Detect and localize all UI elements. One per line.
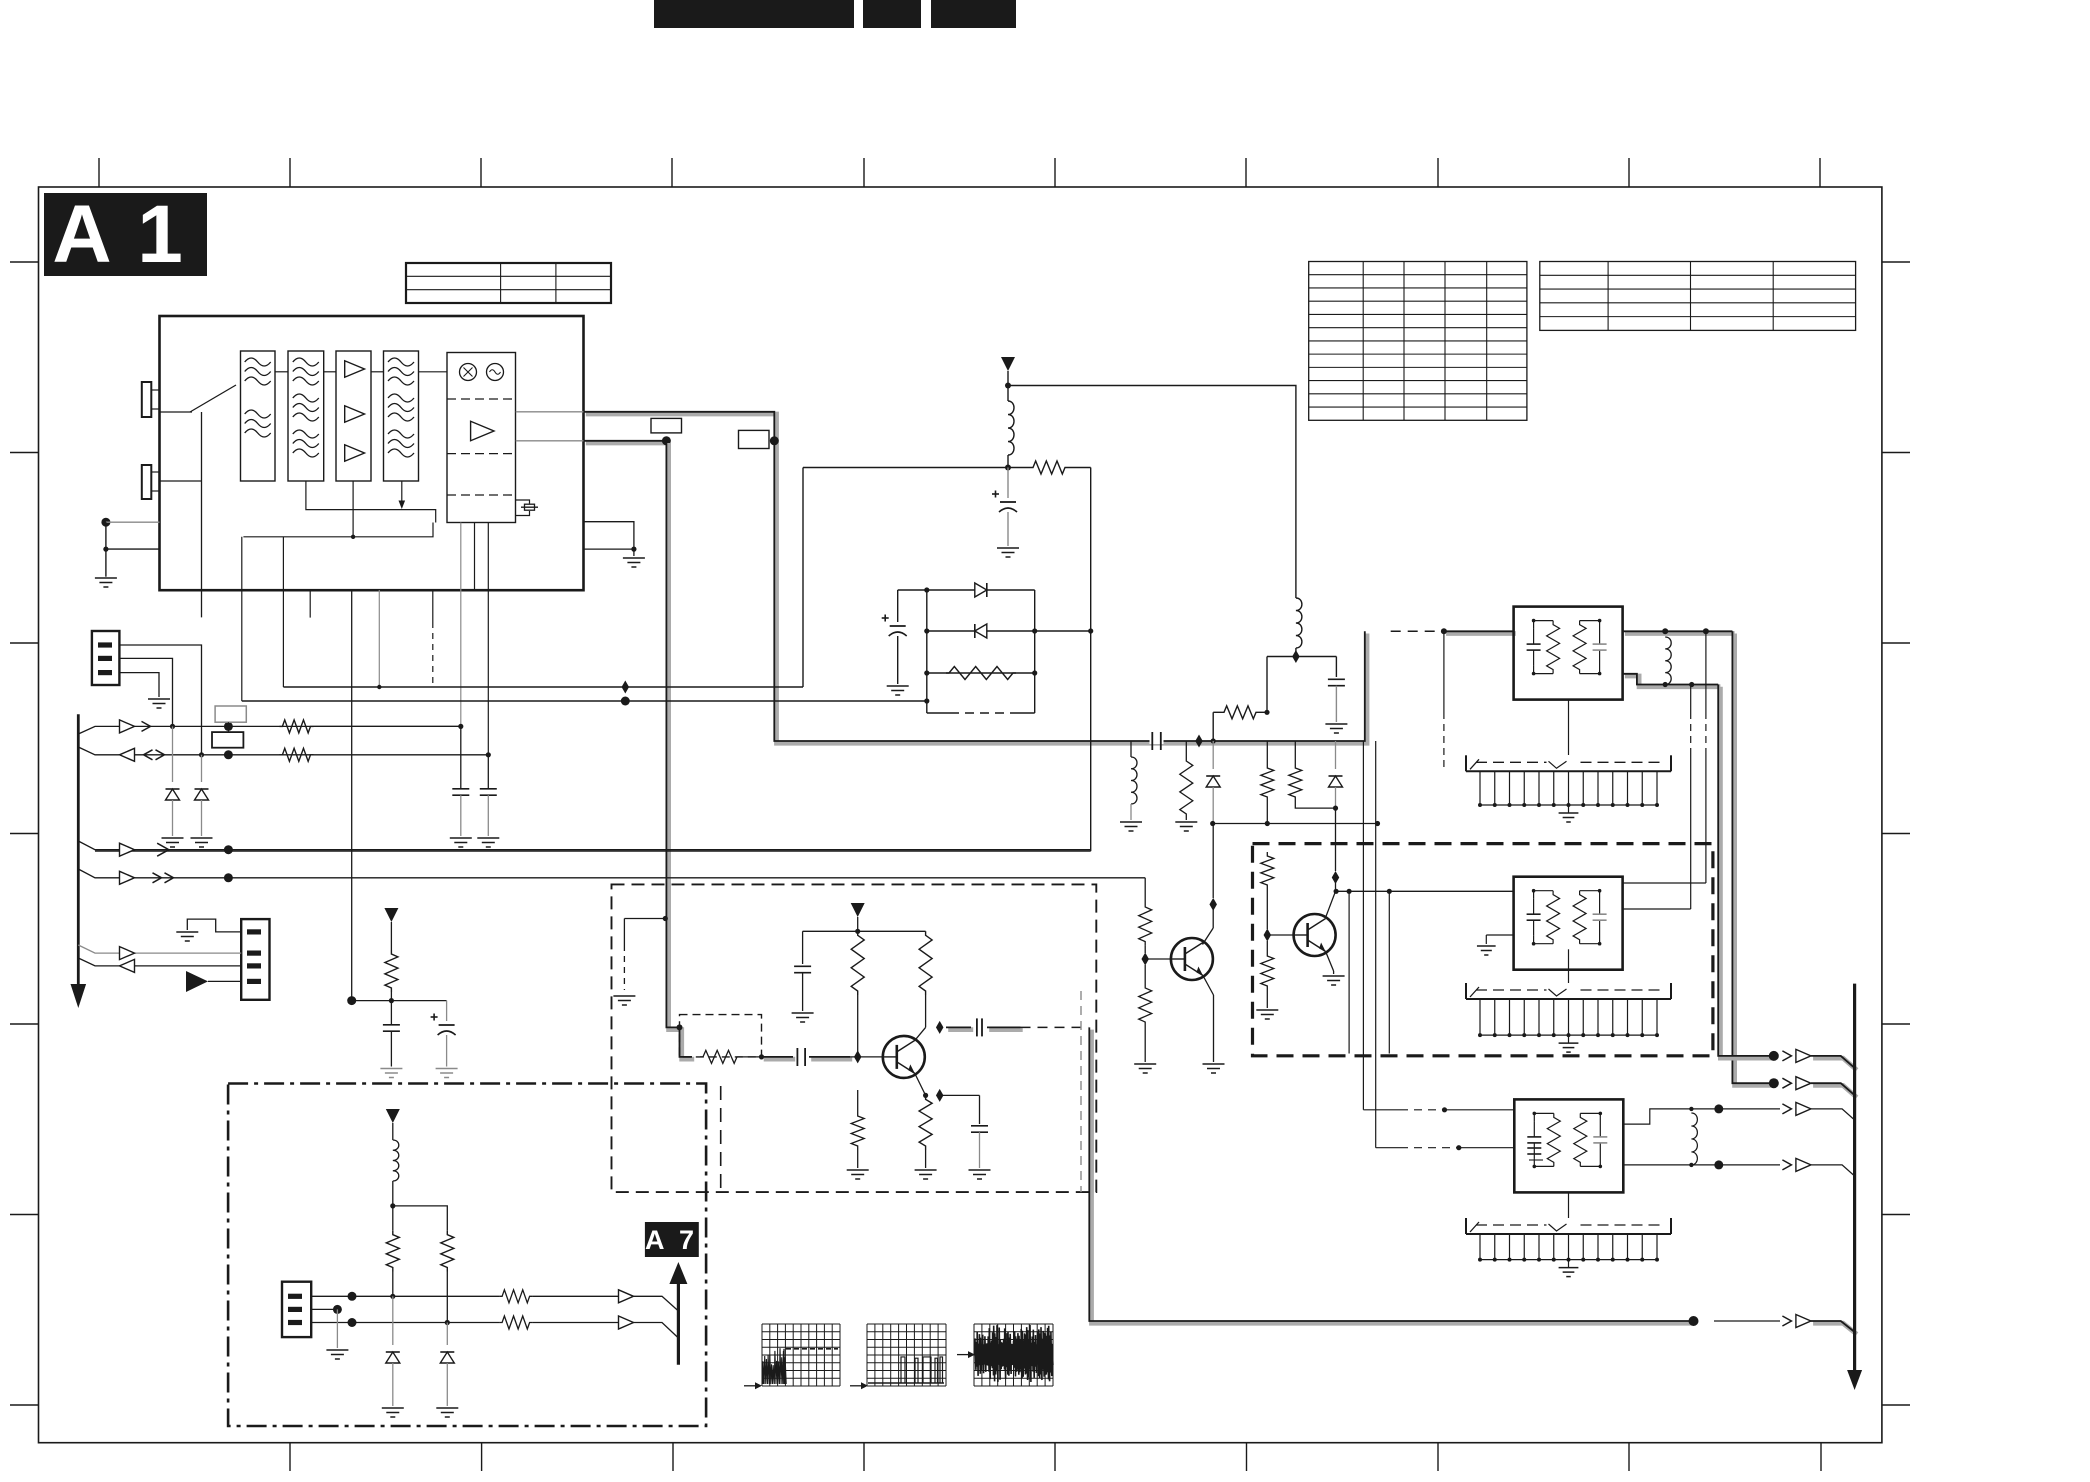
tuner RF amplifier stage <box>336 351 371 481</box>
resistor R141 <box>1008 467 1030 469</box>
IF transformer block T2 <box>1514 877 1623 970</box>
signal line RF AGC <box>78 726 462 734</box>
ground shield stub <box>624 918 665 920</box>
ground tuner AGC <box>95 577 117 579</box>
capacitor C151 electrolytic <box>898 589 927 591</box>
wire Q3 supply rail <box>803 930 926 932</box>
shield gray dashed vertical <box>1080 991 1082 1192</box>
diode D104 <box>201 755 203 782</box>
resistor R108 <box>390 922 392 950</box>
transistor Q3 <box>883 1036 925 1078</box>
resistor R203 <box>1289 764 1302 801</box>
coax capacitor C163 <box>948 1027 973 1032</box>
supply arrow +B mid-left <box>384 908 398 922</box>
ground CN102 pin1 <box>176 931 198 933</box>
wire Q2 collector output <box>1336 890 1514 892</box>
diode D201 <box>1212 741 1214 769</box>
arrow to A7 board <box>677 1283 680 1365</box>
SAW comb filter CF1 <box>1568 700 1570 755</box>
coax capacitor C162 <box>764 1057 796 1062</box>
resistor R142 <box>1221 706 1259 719</box>
oscilloscope waveform 3 <box>973 1324 975 1386</box>
diode D151 <box>927 589 1035 591</box>
svg-text:1: 1 <box>137 189 183 280</box>
tuner mixer-oscillator block <box>447 353 516 523</box>
resistor R172 <box>441 1231 454 1272</box>
coax shield T1 secondary jog <box>1625 676 1721 687</box>
coax shield line Q3 output down <box>1092 1030 1696 1324</box>
shield dashed box IF amplifier <box>612 884 1097 1192</box>
svg-text:A: A <box>52 189 111 280</box>
heavy dashed box IF section <box>1253 844 1713 1056</box>
diode D152 <box>927 630 1091 632</box>
border tick marks top <box>98 158 100 187</box>
ground C106 <box>450 837 472 839</box>
sheet label A1 box <box>44 193 207 276</box>
resistor R202 <box>1266 741 1268 764</box>
ground T2 left <box>1486 934 1513 936</box>
signal collector arrow right <box>1853 984 1856 1370</box>
connector CN102 <box>241 919 269 1000</box>
supply arrow +B A7 <box>386 1109 400 1123</box>
resistor R205 Q2 base lower <box>1266 941 1268 952</box>
tuner IF input connector J102 <box>142 465 152 499</box>
connector CN103 <box>282 1282 311 1337</box>
inductor L171 <box>392 1123 394 1140</box>
wire CN101 pin2 <box>119 658 172 726</box>
ground C107 <box>477 837 499 839</box>
capacitor C106 <box>460 726 462 788</box>
band switch diode module outline <box>926 590 928 713</box>
wire band bus A <box>283 686 803 688</box>
wire CN101 pin1 <box>119 645 201 755</box>
wire aux vertical 1349 <box>1348 891 1350 1053</box>
filled arrow CN102 pin4 <box>186 971 208 992</box>
capacitor C142 <box>1335 657 1337 678</box>
tuner bandpass filter FL2 <box>288 351 324 481</box>
wire mid-left node <box>347 996 356 1005</box>
tuner RF input connector J101 <box>142 382 152 417</box>
inductor L142 oscillator supply <box>1296 598 1302 648</box>
ground C109 <box>380 1068 402 1070</box>
resistor R103 <box>279 720 313 733</box>
wire +B branch down right <box>1090 468 1092 852</box>
wire +B node rail <box>803 467 1008 469</box>
wire thick gray bottom to arrow <box>1714 1320 1780 1322</box>
ground C142 <box>1325 723 1347 725</box>
diode D103 <box>172 726 174 782</box>
capacitor T3 inner extra <box>1527 1147 1541 1149</box>
ground R207 <box>1134 1063 1156 1065</box>
tuner bandpass filter FL1 <box>241 351 276 481</box>
parts table top-right small <box>1540 262 1856 331</box>
inductor L302 <box>1691 1113 1697 1165</box>
title redaction bar 1 <box>654 0 854 28</box>
capacitor C141 electrolytic <box>1007 468 1009 499</box>
ground C151 <box>887 685 909 687</box>
coax shield line tuner IF out 1 <box>586 414 1367 743</box>
ground D103 <box>162 837 184 839</box>
wire Q1 collector feed <box>1212 824 1214 899</box>
IF transformer block T3 <box>1514 1099 1623 1192</box>
ground R164 <box>915 1169 937 1171</box>
component link box JL101 <box>215 706 246 722</box>
coax output row 2 <box>1769 1078 1779 1088</box>
capacitor C109 <box>390 1001 392 1025</box>
schematic border frame <box>39 187 1882 1443</box>
wire Q1 emitter <box>1203 976 1214 996</box>
IF transformer block T1 <box>1514 607 1623 700</box>
wire T1 aux vertical 1 <box>1690 685 1692 713</box>
oscilloscope waveform 1 <box>761 1324 763 1386</box>
revision table top-center <box>406 263 611 303</box>
diode D172 <box>446 1323 448 1346</box>
tuner crystal X101 <box>516 500 530 504</box>
capacitor C164 <box>979 1095 981 1124</box>
coax shield line tuner IF out 2 <box>586 441 669 446</box>
wire band bus B <box>242 700 927 702</box>
tuner AGC decoupling node <box>101 518 110 527</box>
wire Q2 emitter ground <box>1326 952 1334 972</box>
inductor L201 <box>1131 757 1137 804</box>
ground CN103 pin2 <box>326 1349 348 1351</box>
wire T3 input 1 <box>1362 741 1364 1110</box>
resistor R173 <box>499 1290 532 1303</box>
SAW comb filter CF3 <box>1568 1192 1570 1218</box>
wire Q3 collector <box>915 1027 926 1040</box>
svg-text:A 7: A 7 <box>645 1225 698 1255</box>
wire +B rail to oscillator supply <box>1008 386 1296 599</box>
coax shield through T1 <box>1625 631 1735 636</box>
border tick marks right <box>1882 261 1910 263</box>
signal line IF AGC <box>78 747 488 755</box>
ground R201 <box>1175 821 1197 823</box>
signal line A7 data <box>311 1295 499 1297</box>
resistor R104 <box>279 748 313 761</box>
resistor R162 <box>919 931 932 995</box>
wire CN101 pin3 <box>119 673 159 697</box>
capacitor C161 <box>802 931 804 964</box>
wire mixer IF outputs to tuner edge <box>516 411 584 413</box>
signal bus left vertical with arrow <box>77 714 80 984</box>
border tick marks left <box>10 261 39 263</box>
resistor R206 Q1 base upper <box>1139 903 1152 946</box>
ground D171 <box>382 1407 404 1409</box>
ground D104 <box>191 837 213 839</box>
resistor R171 <box>392 1206 394 1231</box>
wire CN102 pin1 to ground <box>187 919 241 932</box>
signal line band select <box>78 869 1145 878</box>
wire A7 supply split <box>393 1206 448 1231</box>
signal line CN102 pin3 <box>78 958 241 966</box>
ground Q1 emitter <box>1203 1063 1225 1065</box>
resistor R161 <box>851 931 864 995</box>
wire Q3 emitter <box>915 1073 926 1095</box>
tuner bandpass filter FL3 <box>384 351 419 481</box>
supply arrow +B Q3 <box>851 903 865 917</box>
ground R205 <box>1256 1009 1278 1011</box>
wire Q2 collector feed <box>1335 808 1337 871</box>
ground C141 <box>997 547 1019 549</box>
resistor R201 <box>1180 757 1193 818</box>
component label box L132 <box>739 430 770 448</box>
inductor L141 <box>1008 401 1014 455</box>
component link box JL102 <box>212 732 243 748</box>
signal line tune voltage <box>78 841 1090 850</box>
oscilloscope waveform 2 <box>866 1324 868 1386</box>
SAW comb filter CF2 <box>1568 949 1570 983</box>
shield inner dashed box <box>680 1015 762 1057</box>
coax output row 1 <box>1769 1051 1779 1061</box>
ground D172 <box>436 1407 458 1409</box>
tuner input switch S101 <box>160 411 193 413</box>
wire oscillator supply node <box>1267 656 1336 658</box>
wire T3 output top <box>1623 1109 1691 1124</box>
capacitor C110 electrolytic <box>446 1001 448 1021</box>
ground L201 <box>1120 821 1142 823</box>
main IF line junction diamond <box>1195 735 1203 748</box>
wire tuner pin stubs <box>241 537 243 701</box>
resistor R151 <box>927 672 1035 674</box>
signal line CN102 pin2 <box>78 945 241 953</box>
wire tuner internal AGC bus <box>306 481 436 523</box>
ground C161 <box>792 1012 814 1014</box>
border tick marks bottom <box>289 1443 291 1471</box>
signal line A7 clock <box>311 1322 499 1324</box>
transistor Q2 <box>1294 914 1336 956</box>
wire tuner AGC long vertical <box>351 590 353 1001</box>
title redaction bar 2 <box>863 0 921 28</box>
wire CN103 pin2 ground <box>333 1305 342 1314</box>
shield dashed continuation right <box>720 1086 722 1192</box>
wire T1 aux vertical 2 <box>1705 631 1707 712</box>
diode D171 <box>392 1296 394 1345</box>
ground C110 <box>436 1068 458 1070</box>
diode D202 <box>1335 741 1337 769</box>
wire AGC feed line <box>1213 823 1378 825</box>
resistor R204 Q2 base upper <box>1261 852 1274 889</box>
wire R142 to IF line <box>1212 712 1214 741</box>
board boundary A7 dash-dot box <box>228 1084 706 1427</box>
ground Q2 emitter <box>1323 975 1345 977</box>
wire aux vertical 1389 <box>1388 891 1390 1053</box>
wire tuner switch to AGC stub <box>201 412 203 617</box>
inductor L301 <box>1665 637 1671 685</box>
coax shield T1 down to arrows <box>1735 634 1776 1086</box>
transistor Q1 <box>1171 938 1213 980</box>
ground C164 <box>969 1169 991 1171</box>
wire T1 dash-entry branch down <box>1443 631 1445 712</box>
resistor R207 Q1 base lower <box>1144 965 1146 984</box>
wire tuner +B to ground node <box>584 522 634 549</box>
tuner block U101 outline <box>160 316 584 590</box>
capacitor C107 <box>487 755 489 788</box>
wire T3 output bottom <box>1623 1164 1691 1166</box>
supply arrow +B upper <box>1001 357 1015 371</box>
component label box L131 <box>651 418 682 433</box>
ground CN101 pin3 <box>148 698 170 700</box>
title redaction bar 3 <box>931 0 1016 28</box>
parts table top-right large <box>1309 262 1527 421</box>
wire T3 input 2 <box>1375 741 1377 1148</box>
coax shield dashed entry to IF block 1 <box>1391 630 1444 632</box>
ground R161 leg <box>857 1090 859 1112</box>
resistor R174 <box>499 1316 532 1329</box>
coax output row 5 bottom <box>1689 1316 1699 1326</box>
connector CN101 <box>92 631 120 685</box>
wire filter chain interconnects <box>275 371 288 373</box>
resistor R164 <box>919 1095 932 1150</box>
ground tuner +B decoupling <box>623 557 645 559</box>
wire tuner internal band bus <box>352 481 354 537</box>
coax series capacitor C131 <box>1150 738 1164 744</box>
label A7 box <box>645 1222 699 1257</box>
resistor R163 <box>700 1050 740 1063</box>
